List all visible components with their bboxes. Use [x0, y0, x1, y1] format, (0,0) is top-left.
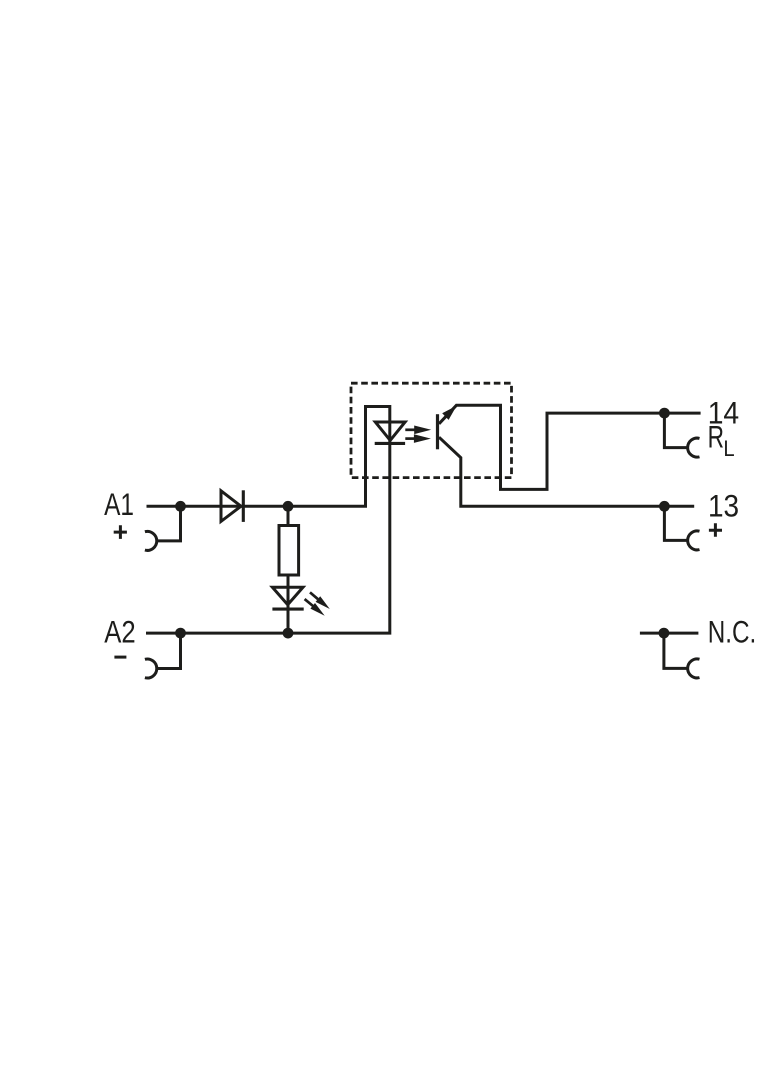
- svg-text:A1: A1: [104, 486, 134, 522]
- svg-text:A2: A2: [104, 615, 135, 650]
- svg-text:L: L: [723, 437, 734, 461]
- svg-text:N.C.: N.C.: [708, 614, 757, 649]
- svg-text:13: 13: [708, 489, 739, 524]
- svg-text:R: R: [708, 419, 724, 455]
